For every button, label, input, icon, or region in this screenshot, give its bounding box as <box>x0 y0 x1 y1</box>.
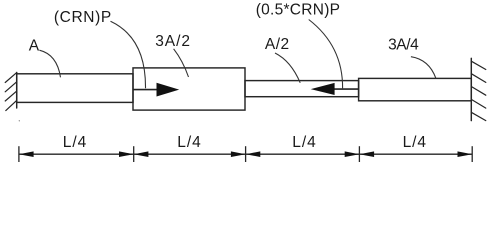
left wall hatching <box>5 73 17 111</box>
dim arrow span2 right <box>231 151 246 157</box>
dimension tick 3 <box>245 146 247 162</box>
leader for 3A/2 <box>174 49 189 77</box>
dimension line <box>19 153 472 155</box>
bar segment A <box>17 74 133 103</box>
svg-text:(CRN)P: (CRN)P <box>54 9 111 26</box>
dim arrow span3 right <box>345 151 360 157</box>
right wall <box>470 58 472 120</box>
left wall <box>16 73 18 109</box>
dim arrow span3 left <box>246 151 261 157</box>
right wall hatching <box>471 61 486 120</box>
dimension tick 2 <box>133 146 135 162</box>
svg-text:L/4: L/4 <box>177 134 201 151</box>
svg-text:3A/4: 3A/4 <box>388 37 419 54</box>
load (0.5*CRN)P arrow head <box>311 83 335 95</box>
bar segment 3A/4 <box>359 78 472 100</box>
leader for (0.5*CRN)P <box>309 20 343 89</box>
dimension tick 5 <box>471 146 473 162</box>
dim arrow span4 right <box>458 151 473 157</box>
svg-text:L/4: L/4 <box>63 134 87 151</box>
leader for A/2 <box>275 53 300 83</box>
load (0.5*CRN)P tail line <box>334 88 359 90</box>
leader for 3A/4 <box>411 57 436 79</box>
dim arrow span2 left <box>134 151 149 157</box>
svg-text:A/2: A/2 <box>265 36 289 53</box>
dimension tick 4 <box>358 146 360 162</box>
dimension tick 1 <box>18 146 20 162</box>
dim arrow span1 right <box>119 151 134 157</box>
bar segment A/2 <box>245 81 359 97</box>
load (CRN)P tail line <box>133 89 158 91</box>
svg-text:L/4: L/4 <box>403 134 427 151</box>
svg-text:A: A <box>29 37 40 54</box>
leader for (CRN)P <box>111 21 146 88</box>
svg-text:3A/2: 3A/2 <box>155 33 190 50</box>
dim arrow span1 left <box>19 151 34 157</box>
svg-text:L/4: L/4 <box>292 134 316 151</box>
load (CRN)P arrow head <box>157 83 180 97</box>
svg-text:(0.5*CRN)P: (0.5*CRN)P <box>256 2 340 19</box>
dim arrow span4 left <box>359 151 374 157</box>
stray mark <box>18 120 21 123</box>
leader for A <box>39 50 60 77</box>
bar segment 3A/2 <box>133 68 245 110</box>
